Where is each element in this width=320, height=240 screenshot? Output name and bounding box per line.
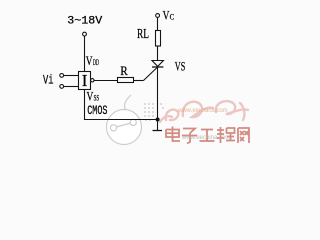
- wire RL to VS: [157, 46, 159, 61]
- wire VSS down: [84, 90, 86, 121]
- resistor RL: [156, 31, 161, 47]
- pin label VSS: [87, 89, 100, 104]
- label Vc: [163, 8, 175, 23]
- svg-text:DD: DD: [93, 58, 99, 67]
- input terminal bottom: [60, 85, 64, 89]
- ground: [153, 130, 163, 132]
- input terminal top: [60, 74, 64, 78]
- svg-text:R: R: [120, 64, 128, 78]
- red watermark text drawn as strokes: [166, 127, 249, 144]
- wire bubble to R: [94, 80, 118, 82]
- thyristor VS anode triangle: [152, 61, 163, 67]
- svg-text:V: V: [86, 53, 93, 68]
- wire bottom horizontal: [84, 119, 158, 121]
- pin label VDD: [86, 53, 99, 68]
- svg-text:Vi: Vi: [43, 74, 54, 88]
- wire input top: [64, 75, 79, 77]
- svg-text:SS: SS: [94, 94, 100, 103]
- watermark decorations drawn first (no labels): [107, 95, 250, 145]
- wire input bottom: [64, 86, 79, 88]
- wire VS cathode down: [157, 67, 159, 130]
- wire Vc to RL: [157, 17, 159, 30]
- svg-text:C: C: [170, 13, 175, 22]
- power terminal: [83, 32, 87, 36]
- svg-text:3~18V: 3~18V: [67, 16, 102, 28]
- wire R to gate: [134, 80, 144, 82]
- gray logo circle: [107, 95, 142, 145]
- svg-text:www.elecfans.com: www.elecfans.com: [177, 108, 228, 114]
- buffer U1 CMOS gate: [79, 72, 91, 90]
- junction: [156, 118, 160, 122]
- output bubble: [91, 79, 94, 82]
- svg-text:VS: VS: [175, 60, 186, 74]
- circuit: [43, 8, 185, 131]
- resistor R: [118, 78, 134, 83]
- svg-text:www.eechina.com: www.eechina.com: [181, 135, 230, 141]
- thyristor VS cathode bar: [152, 66, 163, 68]
- svg-text:I: I: [82, 71, 88, 90]
- pink cursive scribble: [160, 101, 248, 122]
- node Vc terminal: [156, 14, 160, 18]
- dotted pattern: [144, 103, 164, 121]
- wire VDD supply: [84, 36, 86, 72]
- gate wire diagonal: [144, 67, 158, 81]
- svg-text:CMOS: CMOS: [87, 103, 107, 118]
- svg-text:RL: RL: [137, 27, 149, 42]
